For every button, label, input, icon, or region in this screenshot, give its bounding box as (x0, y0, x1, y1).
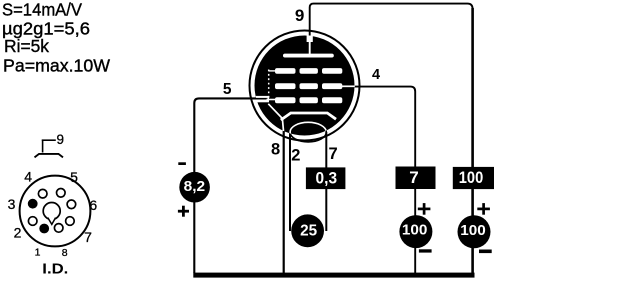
capacitor 100 left minus sign (419, 249, 432, 252)
svg-text:I.D.: I.D. (42, 262, 68, 278)
svg-text:S=14mA/V: S=14mA/V (2, 0, 82, 19)
svg-text:4: 4 (372, 67, 380, 83)
svg-text:2: 2 (291, 146, 300, 164)
svg-text:8: 8 (271, 140, 280, 158)
svg-text:3: 3 (8, 196, 16, 212)
socket pin 5 (57, 189, 66, 198)
socket pin 6 (67, 200, 76, 209)
svg-text:5: 5 (70, 169, 78, 185)
socket top cap dome (35, 154, 64, 158)
wire: resistor 0,3 to capacitor 25 (325, 189, 327, 231)
svg-text:8: 8 (62, 247, 68, 259)
svg-text:1: 1 (35, 246, 41, 258)
tube inner black disc (255, 36, 355, 136)
grid g2 lead to pin 4 (white inside disc) (342, 85, 355, 87)
svg-text:Ri=5k: Ri=5k (4, 36, 49, 56)
wire: resistor 100 down through capacitor 100 to rail (471, 189, 474, 274)
socket base outline (20, 176, 91, 247)
grid row 1 dashes (275, 68, 296, 74)
capacitor 100 right minus sign (479, 250, 492, 254)
socket pin 4 (38, 189, 47, 198)
svg-text:Pa=max.10W: Pa=max.10W (3, 56, 111, 76)
svg-text:9: 9 (56, 132, 64, 147)
capacitor 8,2 plus sign (178, 210, 189, 213)
resistor 0,3 (306, 167, 346, 189)
anode lead entry notch (307, 36, 313, 43)
socket top cap lead (42, 140, 44, 153)
grid row 2 dashes (275, 83, 296, 89)
svg-text:0,3: 0,3 (316, 168, 338, 187)
cathode diagonal lead (268, 104, 282, 119)
heater loop (black outside disc) (290, 122, 326, 142)
capacitor 100 left plus sign (418, 208, 431, 211)
svg-text:100: 100 (460, 222, 486, 239)
svg-text:100: 100 (459, 168, 484, 187)
capacitor 8,2 (179, 172, 210, 203)
socket pin 8 (54, 224, 63, 233)
grid row 3 dashes (275, 97, 296, 103)
pin5 entry channel (256, 96, 269, 102)
capacitor 100 left (399, 215, 432, 248)
svg-text:6: 6 (89, 197, 97, 213)
grid left connector stub row1 (269, 70, 276, 72)
wire: grid pin 4 right then down to resistor 7 (354, 87, 415, 167)
wire: resistor 7 down through capacitor 100 to rail (414, 189, 416, 273)
capacitor 100 right (458, 215, 491, 248)
wire: anode pin 9 up and over to HT rail (310, 4, 473, 167)
cathode chevron (281, 113, 336, 120)
wire: heater pin 2 down to capacitor 25 (289, 132, 291, 231)
wire: heater pin 7 down to resistor 0,3 (325, 132, 327, 168)
capacitor 8,2 minus sign (178, 162, 186, 165)
svg-text:100: 100 (402, 222, 428, 239)
svg-text:7: 7 (409, 168, 418, 187)
capacitor 100 right plus sign (477, 208, 490, 211)
wire: HT right vertical (thicker) (471, 8, 474, 167)
resistor 100 (453, 167, 494, 189)
svg-text:25: 25 (300, 223, 317, 240)
svg-text:5: 5 (223, 81, 232, 98)
svg-text:4: 4 (24, 168, 32, 184)
ground rail (bottom) (193, 273, 474, 278)
socket pin 3 (filled) (28, 199, 38, 209)
cathode stub to pin 8 (282, 118, 283, 132)
heater loop (white inside disc) (290, 122, 326, 142)
socket pin 2 (28, 217, 37, 226)
socket center key (43, 203, 60, 220)
socket pin 1 (filled) (39, 224, 49, 234)
svg-text:7: 7 (84, 229, 92, 245)
capacitor 25 (291, 214, 324, 247)
svg-text:2: 2 (14, 225, 22, 241)
svg-text:7: 7 (329, 145, 338, 163)
wire: grid pin 5 left then down to capacitor 8,2 branch (194, 98, 262, 273)
svg-text:9: 9 (295, 6, 304, 25)
svg-text:8,2: 8,2 (184, 178, 206, 195)
wire: cathode pin 8 down to ground rail (283, 130, 285, 273)
socket pin 7 (66, 217, 75, 226)
tube envelope: outer circle (250, 31, 360, 141)
anode plate bar (283, 54, 334, 58)
grid left vertical connector (dotted) (268, 70, 270, 101)
resistor 7 (396, 167, 436, 190)
